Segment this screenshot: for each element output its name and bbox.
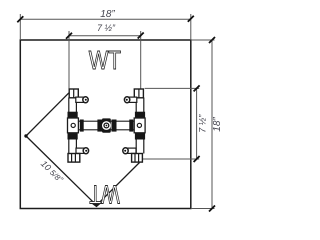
tick left 18 top xyxy=(17,16,23,22)
tick bottom 18 right xyxy=(209,206,215,212)
extension line top (right 18 dim) xyxy=(191,39,215,41)
coupling band lower-left xyxy=(68,133,78,140)
bar band 1 xyxy=(80,120,84,132)
stub bottom-left xyxy=(76,148,84,153)
right block xyxy=(134,118,145,133)
diagonal edge upper-left xyxy=(26,93,69,136)
tick left 7.5 top xyxy=(66,33,72,39)
central valve xyxy=(102,118,111,132)
wall box outline 18x18 xyxy=(20,40,191,209)
tick bottom 7.5 right xyxy=(194,156,200,162)
dimension line 7.5 right xyxy=(196,88,198,159)
bottom vertex blob (T crossbar + dim ends) xyxy=(90,202,103,207)
bar band 2 xyxy=(97,120,102,132)
bar band 3 xyxy=(112,120,117,132)
extension line left (7.5 dim) xyxy=(68,31,70,89)
svg-text:7 ½”: 7 ½” xyxy=(198,114,208,133)
svg-text:7 ½”: 7 ½” xyxy=(97,23,116,33)
extension line right (7.5 dim) xyxy=(140,31,142,89)
svg-text:WT: WT xyxy=(89,179,119,207)
left vertex dot xyxy=(24,134,27,137)
dimension line 18 right xyxy=(211,40,213,209)
dimension line 18 top xyxy=(20,18,191,20)
extension line bottom (right 7.5 dim) xyxy=(142,158,199,160)
stub top-right xyxy=(129,97,137,102)
tick top 7.5 right xyxy=(194,85,200,91)
tick right 18 top xyxy=(188,16,194,22)
fitting top-left xyxy=(69,89,78,98)
fitting top-right xyxy=(134,89,143,98)
extension line bottom (right 18 dim) xyxy=(191,208,215,210)
dimension line 7.5 top xyxy=(69,35,141,37)
extension line left (top 18 dim) xyxy=(19,14,21,40)
diagonal edge lower-left xyxy=(26,136,97,205)
svg-text:18”: 18” xyxy=(100,9,115,20)
extension line right (top 18 dim) xyxy=(190,14,192,40)
left pipe xyxy=(68,98,70,154)
coupling band lower-right xyxy=(135,133,145,140)
fitting bottom-right xyxy=(132,154,143,163)
left block xyxy=(68,118,79,133)
stub bottom-right xyxy=(128,148,136,153)
bar band 4 xyxy=(129,120,133,132)
crossbar body xyxy=(78,121,134,130)
fitting bottom-left xyxy=(68,154,80,163)
svg-text:18”: 18” xyxy=(212,117,223,132)
coupling band upper-left xyxy=(68,112,78,118)
extension line top (right 7.5 dim) xyxy=(145,87,200,89)
tick right 7.5 top xyxy=(138,33,144,39)
stub top-left xyxy=(76,97,84,102)
svg-text:WT: WT xyxy=(89,47,121,75)
coupling band upper-right xyxy=(135,112,145,118)
diagonal edge lower-right xyxy=(97,163,140,206)
right pipe xyxy=(135,98,137,154)
tick top 18 right xyxy=(209,37,215,43)
